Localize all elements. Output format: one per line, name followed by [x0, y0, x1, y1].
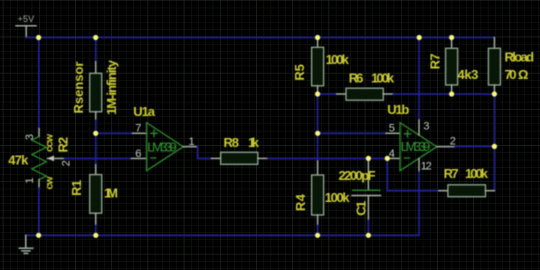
- svg-text:100k: 100k: [465, 166, 489, 181]
- svg-text:R2: R2: [55, 137, 70, 153]
- svg-text:6: 6: [135, 148, 141, 160]
- svg-text:2200pF: 2200pF: [339, 168, 376, 183]
- svg-text:2: 2: [61, 160, 73, 166]
- svg-text:R6: R6: [349, 70, 364, 85]
- capacitor C1: [352, 161, 381, 221]
- svg-text:1M: 1M: [104, 185, 118, 200]
- junction Rload bottom on output rail: [492, 91, 497, 96]
- svg-text:LM339: LM339: [401, 139, 430, 154]
- resistor R8: [212, 152, 269, 164]
- junction on +5V rail at Rsensor column: [93, 35, 98, 40]
- junction R7 bottom on output rail: [449, 91, 454, 96]
- svg-text:100k: 100k: [326, 52, 350, 67]
- svg-text:1M-infinity: 1M-infinity: [104, 59, 119, 115]
- wire +5V rail down to pot R2 pin3: [38, 38, 40, 129]
- svg-text:2: 2: [450, 135, 456, 147]
- wire R4 bottom to ground rail: [317, 226, 319, 236]
- wire U1b output to node: [455, 145, 494, 147]
- junction output node: [492, 144, 497, 149]
- svg-text:100k: 100k: [371, 70, 395, 85]
- wire R6 to output node rail: [393, 93, 494, 95]
- wire pin4 net down to feedback R7: [387, 158, 439, 190]
- svg-text:47k: 47k: [8, 153, 29, 168]
- svg-text:3: 3: [24, 134, 36, 140]
- wire +5V top rail: [26, 37, 494, 39]
- junction R5 bottom node: [315, 91, 320, 96]
- svg-text:1k: 1k: [248, 135, 260, 150]
- wire U1b pin3 to +5V rail: [418, 38, 420, 119]
- svg-text:12: 12: [421, 161, 432, 173]
- svg-text:3: 3: [423, 121, 429, 133]
- svg-text:cw: cw: [44, 176, 56, 190]
- resistor Rload: [488, 38, 500, 95]
- wire ground bottom rail: [26, 234, 419, 236]
- resistor R6: [337, 88, 394, 100]
- wire node to U1b pin5: [318, 132, 386, 134]
- junction on +5V rail at U1b pin3 column: [417, 35, 422, 40]
- wire R5 node down to pin5 node: [317, 94, 319, 133]
- svg-text:U1a: U1a: [133, 104, 155, 119]
- junction ground rail at R4 column: [315, 233, 320, 238]
- wire node to U1a pin7: [96, 132, 133, 134]
- junction on +5V rail at pot column: [36, 35, 41, 40]
- wire C1 bottom to ground rail: [367, 220, 369, 235]
- svg-text:Rload: Rload: [505, 50, 535, 65]
- svg-text:C1: C1: [354, 201, 369, 216]
- wire U1a output to R8: [198, 147, 212, 159]
- junction pin4 net corner: [385, 156, 390, 161]
- svg-text:100k: 100k: [325, 190, 351, 205]
- op-amp U1b: [386, 119, 455, 172]
- wire output node vertical: [493, 94, 495, 191]
- junction C1 top on pin4 net: [366, 156, 371, 161]
- svg-text:Rsensor: Rsensor: [71, 62, 86, 114]
- svg-text:5: 5: [389, 123, 395, 135]
- wire R5 bottom to R6: [318, 93, 337, 95]
- resistor R7 100k feedback: [439, 185, 495, 197]
- ground symbol: [19, 235, 33, 253]
- svg-text:Ω: Ω: [518, 67, 528, 82]
- resistor Rsensor: [90, 62, 102, 121]
- resistor R4: [312, 161, 324, 226]
- svg-text:R1: R1: [69, 180, 84, 196]
- wire U1b pin12 to ground rail: [418, 172, 420, 235]
- svg-text:R8: R8: [224, 135, 240, 150]
- svg-text:70: 70: [505, 67, 517, 82]
- wire R1 bottom to ground rail: [95, 226, 97, 236]
- junction ground rail at R1 column: [93, 233, 98, 238]
- resistor R1: [90, 165, 102, 226]
- svg-text:7: 7: [135, 123, 141, 135]
- power symbol +5V: [16, 14, 36, 37]
- svg-text:ccw: ccw: [44, 133, 56, 152]
- op-amp U1a: [132, 123, 198, 171]
- svg-text:+5V: +5V: [18, 14, 34, 24]
- resistor R5: [312, 38, 324, 95]
- svg-text:1: 1: [189, 136, 195, 148]
- wire node down to R4: [317, 133, 319, 161]
- svg-text:R5: R5: [292, 64, 307, 81]
- junction on +5V rail at R5 column: [315, 35, 320, 40]
- wire R2 pin1 down to ground rail: [38, 188, 40, 235]
- junction node R5/R4/pin5: [315, 131, 320, 136]
- resistor R7 4k3: [446, 38, 458, 95]
- junction node Rsensor/R1/pin7: [93, 131, 98, 136]
- svg-text:4k3: 4k3: [458, 67, 479, 82]
- wire R8 to U1b pin4 net: [268, 157, 387, 159]
- junction on +5V rail at R7 column: [449, 35, 454, 40]
- potentiometer R2: [32, 129, 65, 189]
- svg-text:R7: R7: [444, 166, 459, 181]
- svg-text:R4: R4: [293, 193, 308, 211]
- svg-text:LM339: LM339: [147, 140, 176, 155]
- svg-text:R7: R7: [428, 53, 443, 69]
- wire node down to R1: [95, 133, 97, 165]
- junction ground rail at C1 column: [366, 233, 371, 238]
- wire R2 wiper to U1a pin6: [65, 157, 132, 159]
- wire Rsensor bottom to node: [95, 121, 97, 134]
- svg-text:U1b: U1b: [387, 102, 409, 117]
- junction ground rail at pot column: [36, 233, 41, 238]
- svg-text:1: 1: [24, 177, 36, 183]
- wire +5V rail down to Rsensor: [95, 38, 97, 62]
